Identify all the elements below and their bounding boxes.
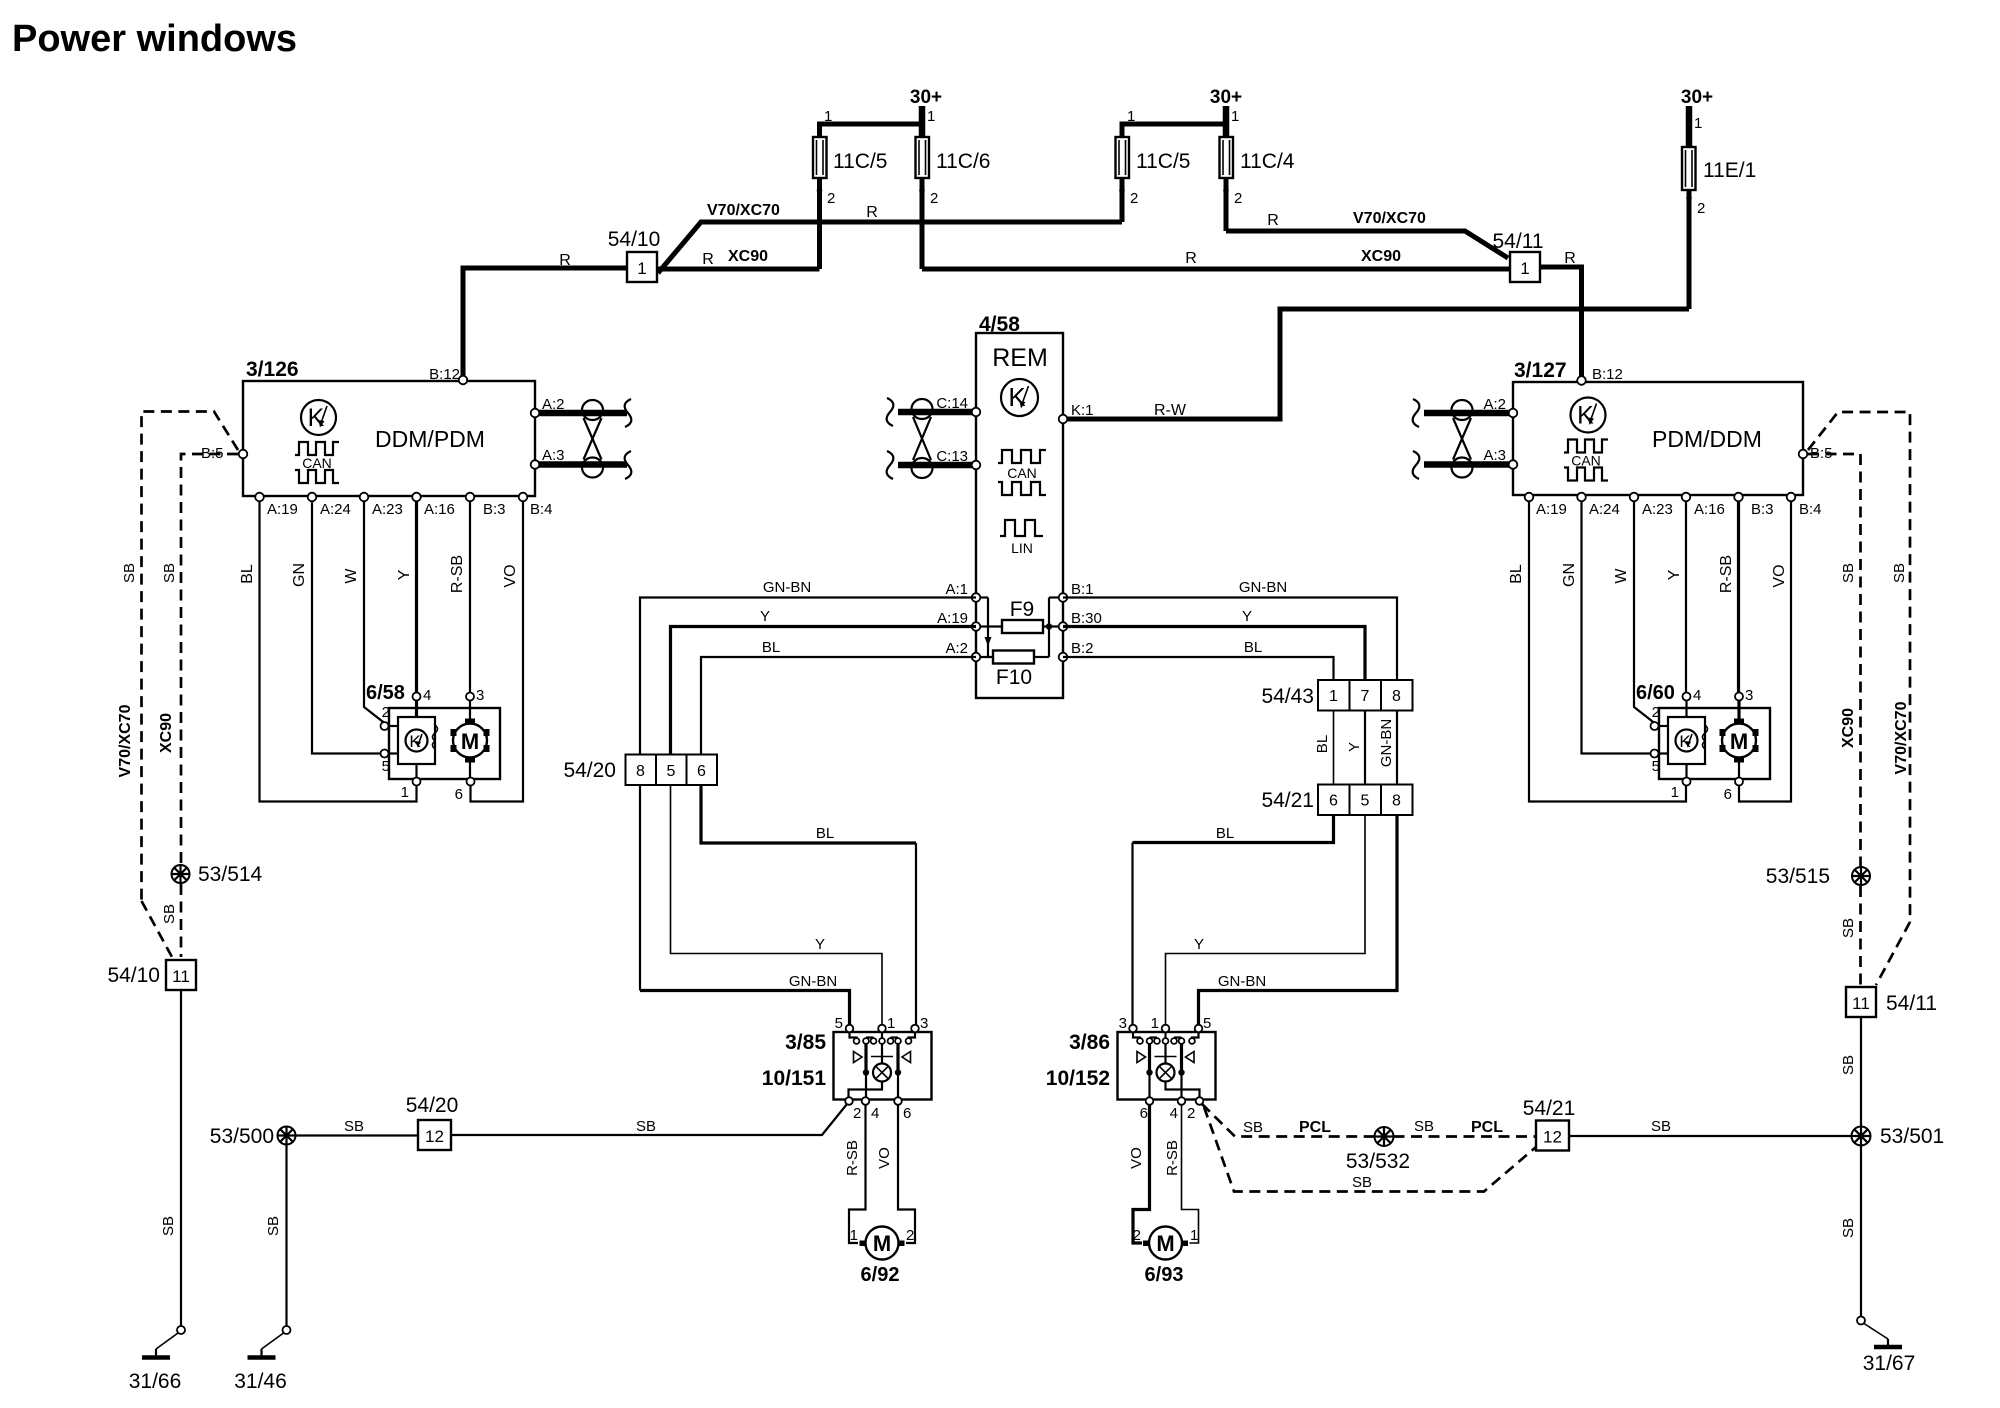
- svg-text:A:19: A:19: [267, 501, 298, 518]
- svg-text:6: 6: [455, 786, 463, 803]
- svg-text:Y: Y: [815, 936, 825, 953]
- fuse F10: [1034, 656, 1049, 658]
- wire dashed below splice 53/514: [180, 884, 183, 957]
- svg-text:3/127: 3/127: [1514, 359, 1567, 382]
- svg-text:1: 1: [887, 1015, 895, 1032]
- svg-text:6/92: 6/92: [861, 1264, 900, 1286]
- svg-text:VO: VO: [876, 1147, 893, 1169]
- svg-text:6/93: 6/93: [1145, 1264, 1184, 1286]
- wire dashed diagonal into 54/10: [142, 901, 173, 957]
- pin 6 of 6/58: [467, 778, 475, 786]
- svg-text:6: 6: [1329, 793, 1338, 810]
- svg-text:1: 1: [401, 784, 409, 801]
- svg-text:3/85: 3/85: [785, 1031, 826, 1054]
- svg-text:SB: SB: [1840, 1055, 1857, 1075]
- wire GN-BN below 54/21 to 3/86 pin5: [1199, 815, 1398, 1026]
- wire GN A:24 to 6/58 pin5: [312, 497, 381, 754]
- svg-text:BL: BL: [239, 564, 256, 584]
- svg-text:5: 5: [382, 758, 390, 775]
- svg-text:1: 1: [1151, 1015, 1159, 1032]
- fuse 11C/6: [916, 137, 930, 178]
- splice 53/501: [1852, 1127, 1871, 1146]
- svg-text:1: 1: [850, 1227, 858, 1244]
- wire R-SB B:3 to 6/58 pin3: [469, 497, 471, 694]
- svg-text:R: R: [1267, 212, 1279, 229]
- svg-text:SB: SB: [636, 1118, 656, 1135]
- svg-text:SB: SB: [1352, 1174, 1372, 1191]
- pin 2 of 11C/5 right: [1119, 188, 1125, 194]
- svg-text:2: 2: [1234, 190, 1242, 207]
- wire SB to ground 31/66: [180, 990, 182, 1326]
- svg-text:W: W: [343, 568, 360, 584]
- svg-text:11E/1: 11E/1: [1703, 159, 1756, 182]
- svg-text:1: 1: [1694, 115, 1702, 132]
- svg-text:5: 5: [667, 763, 676, 780]
- svg-text:B:12: B:12: [1592, 366, 1623, 383]
- svg-text:XC90: XC90: [728, 248, 768, 265]
- wire dashed SB lower loop: [1204, 1107, 1536, 1192]
- svg-text:A:23: A:23: [372, 501, 403, 518]
- wire VO B:4 down to 6/58 pin6: [471, 497, 524, 802]
- twist symbol: [1452, 400, 1473, 478]
- component box 4/58: [976, 333, 1063, 698]
- bottom pins 3/86: [1146, 1097, 1154, 1105]
- svg-text:Power windows: Power windows: [12, 18, 297, 60]
- wire SB from 53/500 down to ground 31/46: [285, 1145, 287, 1327]
- svg-text:53/501: 53/501: [1880, 1125, 1944, 1148]
- svg-text:B:3: B:3: [1751, 501, 1774, 518]
- svg-text:R-SB: R-SB: [1164, 1140, 1181, 1176]
- wire SB V70/XC70 dashed: [1808, 412, 1910, 922]
- wire fuse top link 11C/5 to 30+: [820, 124, 923, 140]
- wire BL A:19 down to 6/60 pin1: [1529, 497, 1686, 802]
- CAN symbol 3/126: [295, 442, 339, 483]
- wire XC90 branch from 54/10 to 11C/5: [658, 267, 820, 272]
- svg-text:GN-BN: GN-BN: [1378, 719, 1395, 767]
- svg-text:54/10: 54/10: [107, 964, 160, 987]
- svg-text:R: R: [1564, 250, 1576, 267]
- svg-text:2: 2: [1130, 190, 1138, 207]
- svg-text:1: 1: [1671, 784, 1679, 801]
- fuse 11E/1: [1682, 147, 1696, 190]
- svg-text:SB: SB: [121, 563, 138, 583]
- svg-text:A:16: A:16: [1694, 501, 1725, 518]
- wire BL below 54/21 to 3/86 pin3: [1133, 815, 1334, 843]
- wire GN-BN A:1: [640, 598, 976, 991]
- wire SB from 54/21 to 53/501: [1569, 1135, 1852, 1137]
- svg-text:R-W: R-W: [1154, 402, 1187, 419]
- svg-text:A:2: A:2: [1483, 396, 1506, 413]
- wire R-W from 11E/1 to REM K:1: [1063, 309, 1689, 419]
- hook A:2: [1413, 399, 1420, 427]
- svg-text:XC90: XC90: [1361, 248, 1401, 265]
- twisted pair A:2/A:3 of 3/126: [535, 410, 627, 417]
- svg-text:Y: Y: [396, 569, 413, 580]
- svg-text:3: 3: [476, 687, 484, 704]
- pin 6 of 6/60: [1735, 778, 1743, 786]
- svg-text:B:12: B:12: [429, 366, 460, 383]
- svg-text:2: 2: [1652, 704, 1660, 721]
- svg-text:CAN: CAN: [1571, 453, 1601, 469]
- svg-text:GN-BN: GN-BN: [1218, 973, 1266, 990]
- svg-text:53/532: 53/532: [1346, 1150, 1410, 1173]
- pin A:3 of 3/126: [531, 460, 540, 469]
- bottom pins 3/85: [845, 1097, 853, 1105]
- svg-text:30+: 30+: [910, 87, 942, 108]
- pin A:2: [972, 653, 981, 662]
- wires pins into 6/60: [1685, 698, 1687, 717]
- svg-text:54/43: 54/43: [1261, 685, 1314, 708]
- svg-text:K: K: [1008, 382, 1026, 412]
- pin 2 of 11C/5 left: [817, 188, 823, 194]
- svg-text:1: 1: [1190, 1227, 1198, 1244]
- wire GN A:24 to 6/60 pin5: [1582, 497, 1652, 754]
- motor 6/93: [1143, 1227, 1188, 1260]
- pin 5 of 6/60: [1651, 750, 1659, 758]
- wire GN-BN drop to 3/85 pin5: [640, 991, 850, 1027]
- svg-text:SB: SB: [265, 1216, 282, 1236]
- K circle 6/60: [1676, 730, 1698, 752]
- hook C:14: [887, 398, 894, 426]
- svg-text:PCL: PCL: [1299, 1119, 1331, 1136]
- svg-text:A:24: A:24: [320, 501, 351, 518]
- wire Y A:16 to 6/58 pin4: [415, 497, 418, 694]
- pin A:1: [972, 593, 981, 602]
- svg-text:R-SB: R-SB: [449, 555, 466, 593]
- svg-text:5: 5: [1652, 758, 1660, 775]
- svg-text:2: 2: [1133, 1227, 1141, 1244]
- svg-text:SB: SB: [344, 1118, 364, 1135]
- svg-text:B:30: B:30: [1071, 610, 1102, 627]
- wire R-SB from pin4 to motor 6/93: [1182, 1104, 1199, 1243]
- wire W A:23 to 6/60 pin2: [1634, 497, 1655, 723]
- wire Y below 54/20: [671, 785, 883, 1026]
- pin 2 of 6/58: [381, 722, 389, 730]
- svg-text:31/67: 31/67: [1863, 1352, 1916, 1375]
- K symbol 3/127: [1571, 398, 1606, 433]
- pin 3 of 6/60: [1735, 693, 1743, 701]
- svg-text:B:4: B:4: [530, 501, 553, 518]
- wire VO B:4 down to 6/60 pin6: [1739, 497, 1791, 802]
- svg-text:12: 12: [1543, 1128, 1562, 1147]
- pin B:12 of 3/126: [459, 376, 468, 385]
- svg-text:53/514: 53/514: [198, 863, 263, 886]
- wire V70/XC70 branch from 54/10: [658, 222, 1122, 273]
- wire VO from pin6 to motor 6/93: [1133, 1104, 1150, 1243]
- svg-text:K:1: K:1: [1071, 402, 1094, 419]
- svg-text:W: W: [1613, 568, 1630, 584]
- bottom pins of 3/126: [255, 493, 264, 502]
- svg-text:F10: F10: [996, 666, 1032, 689]
- wire BL A:19 down and to 6/58 pin1: [260, 497, 417, 802]
- svg-text:V70/XC70: V70/XC70: [1353, 210, 1426, 227]
- inner module box 6/58: [398, 717, 435, 764]
- svg-text:3: 3: [920, 1015, 928, 1032]
- svg-text:V70/XC70: V70/XC70: [707, 202, 780, 219]
- svg-text:CAN: CAN: [302, 455, 332, 471]
- svg-text:54/11: 54/11: [1493, 230, 1544, 253]
- svg-text:53/515: 53/515: [1766, 865, 1830, 888]
- wire VO from pin6 to motor 6/92: [898, 1104, 915, 1243]
- connector 54/10 (pin 11): [166, 960, 196, 990]
- wire SB to ground 31/67: [1860, 1146, 1862, 1317]
- svg-text:BL: BL: [762, 639, 780, 656]
- svg-text:B:1: B:1: [1071, 581, 1094, 598]
- hook A:2: [625, 399, 632, 427]
- svg-text:LIN: LIN: [1011, 540, 1033, 556]
- splice 53/532: [1375, 1127, 1394, 1146]
- svg-text:M: M: [1156, 1231, 1174, 1256]
- pin 3 of 6/58: [466, 693, 474, 701]
- pin A:3 of 3/127: [1509, 460, 1518, 469]
- internal bus B-side: [1048, 598, 1050, 658]
- wire R from B:12 of 3/126 up and right to 54/10: [463, 268, 627, 376]
- wire SB to splice 53/501: [1860, 1017, 1862, 1127]
- svg-text:6/58: 6/58: [366, 682, 405, 704]
- pin B:30: [1059, 622, 1068, 631]
- component box 3/127: [1513, 382, 1803, 495]
- svg-text:5: 5: [1361, 793, 1370, 810]
- svg-text:54/10: 54/10: [608, 228, 661, 251]
- svg-text:6: 6: [1724, 786, 1732, 803]
- pin B:1: [1059, 593, 1068, 602]
- pin A:2 of 3/127: [1509, 409, 1518, 418]
- svg-text:A:3: A:3: [542, 447, 565, 464]
- LIN symbol REM: [1000, 520, 1043, 556]
- svg-text:Y: Y: [1242, 608, 1252, 625]
- svg-text:A:3: A:3: [1483, 447, 1506, 464]
- svg-text:1: 1: [1127, 108, 1135, 125]
- svg-text:12: 12: [425, 1127, 444, 1146]
- ground 31/67: [1857, 1317, 1902, 1348]
- svg-text:2: 2: [906, 1227, 914, 1244]
- svg-text:3/126: 3/126: [246, 358, 299, 381]
- wire dashed below splice 53/515: [1859, 886, 1862, 986]
- svg-text:7: 7: [1361, 688, 1370, 705]
- wire pin2 to SB line: [451, 1104, 847, 1135]
- svg-text:8: 8: [636, 763, 645, 780]
- svg-text:BL: BL: [1314, 735, 1331, 753]
- wire Y B:30: [1063, 627, 1365, 681]
- splice 53/500: [278, 1127, 296, 1145]
- pin B:5 of 3/126: [239, 450, 248, 459]
- hook A:3: [625, 451, 632, 479]
- wire Y middle: [1364, 711, 1366, 785]
- wire Y below 54/21 to 3/86 pin1: [1166, 815, 1366, 1026]
- internal wiring 3/85: [849, 1030, 916, 1098]
- ground 31/46: [248, 1326, 291, 1358]
- svg-text:BL: BL: [1508, 564, 1525, 584]
- svg-text:54/20: 54/20: [563, 759, 616, 782]
- connector 54/11 (pin 11): [1846, 987, 1876, 1017]
- wire BL drop: [1131, 843, 1133, 1027]
- CAN symbol 3/127: [1564, 440, 1608, 481]
- svg-text:R: R: [559, 252, 571, 269]
- wire SB splice to 54/20: [296, 1134, 419, 1136]
- svg-text:4: 4: [1170, 1105, 1178, 1122]
- svg-text:V70/XC70: V70/XC70: [1893, 701, 1910, 774]
- svg-text:SB: SB: [1414, 1118, 1434, 1135]
- svg-text:3: 3: [1745, 687, 1753, 704]
- svg-text:GN-BN: GN-BN: [789, 973, 837, 990]
- wires pins into 6/58: [415, 698, 418, 717]
- pin K:1: [1059, 415, 1068, 424]
- svg-text:2: 2: [1697, 200, 1705, 217]
- svg-text:54/21: 54/21: [1523, 1097, 1576, 1120]
- svg-text:1: 1: [1231, 108, 1239, 125]
- svg-text:11C/5: 11C/5: [833, 150, 887, 173]
- svg-text:5: 5: [1203, 1015, 1211, 1032]
- svg-text:CAN: CAN: [1007, 465, 1037, 481]
- svg-text:B:3: B:3: [483, 501, 506, 518]
- pin 2 of 11E/1: [1686, 195, 1692, 201]
- wire BL B:2: [1063, 657, 1334, 680]
- svg-text:M: M: [873, 1231, 891, 1256]
- fuse F9: [976, 625, 1002, 627]
- CAN symbol REM: [998, 450, 1046, 495]
- svg-text:2: 2: [930, 190, 938, 207]
- pin 1 of 6/58: [413, 778, 421, 786]
- svg-text:1: 1: [1520, 259, 1529, 278]
- wire W A:23 to 6/58 pin2: [364, 497, 385, 723]
- svg-text:BL: BL: [1244, 639, 1262, 656]
- svg-text:Y: Y: [1194, 936, 1204, 953]
- svg-text:PCL: PCL: [1471, 1119, 1503, 1136]
- svg-text:11: 11: [172, 967, 190, 986]
- twist symbol REM: [912, 399, 933, 478]
- wire 30+ stub left: [919, 106, 926, 140]
- pin 2 of 11C/6: [919, 188, 925, 194]
- svg-text:R: R: [866, 204, 878, 221]
- wire dashed SB-PCL to 54/21: [1394, 1135, 1537, 1138]
- pin 2 of 11C/4: [1223, 188, 1229, 194]
- fuse 11C/4: [1220, 137, 1234, 178]
- svg-text:R: R: [702, 251, 714, 268]
- svg-text:2: 2: [827, 190, 835, 207]
- svg-text:6: 6: [903, 1105, 911, 1122]
- svg-text:Y: Y: [760, 608, 770, 625]
- svg-text:54/11: 54/11: [1886, 992, 1937, 1015]
- pin C:13: [972, 461, 981, 470]
- svg-text:10/151: 10/151: [762, 1067, 827, 1090]
- svg-text:3: 3: [1119, 1015, 1127, 1032]
- svg-text:1: 1: [927, 108, 935, 125]
- wire V70/XC70 up to 11C/5 right: [1120, 140, 1125, 222]
- svg-text:SB: SB: [1243, 1119, 1263, 1136]
- wire Y A:19: [671, 627, 977, 755]
- svg-text:11C/5: 11C/5: [1136, 150, 1190, 173]
- pin 4 of 6/58: [413, 693, 421, 701]
- svg-text:5: 5: [835, 1015, 843, 1032]
- ground 31/66: [142, 1326, 185, 1358]
- svg-text:GN: GN: [1561, 563, 1578, 587]
- svg-text:GN-BN: GN-BN: [1239, 579, 1287, 596]
- svg-text:F9: F9: [1010, 598, 1035, 621]
- svg-text:31/46: 31/46: [234, 1370, 287, 1393]
- wire BL middle: [1333, 711, 1335, 785]
- wire SB XC90 dashed: [181, 454, 238, 864]
- pin A:2 of 3/126: [531, 409, 540, 418]
- svg-text:SB: SB: [1891, 563, 1908, 583]
- svg-text:30+: 30+: [1681, 87, 1713, 108]
- motor M 6/58: [451, 719, 490, 763]
- svg-text:A:19: A:19: [937, 610, 968, 627]
- twisted pair A:2/A:3 of 3/127: [1424, 410, 1513, 417]
- svg-text:XC90: XC90: [158, 713, 175, 753]
- svg-text:PDM/DDM: PDM/DDM: [1652, 426, 1762, 452]
- svg-text:11C/6: 11C/6: [936, 150, 990, 173]
- svg-text:3/86: 3/86: [1069, 1031, 1110, 1054]
- wire 11C/4 lower lead: [1224, 124, 1229, 231]
- svg-text:C:13: C:13: [936, 448, 968, 465]
- K symbol REM: [1001, 379, 1038, 416]
- wire 30+ stub 11E/1: [1686, 106, 1693, 150]
- svg-text:M: M: [461, 729, 479, 754]
- fuse 11C/5 left: [813, 137, 827, 178]
- svg-text:A:24: A:24: [1589, 501, 1620, 518]
- svg-text:A:16: A:16: [424, 501, 455, 518]
- svg-text:DDM/PDM: DDM/PDM: [375, 426, 485, 452]
- svg-text:M: M: [1730, 729, 1748, 754]
- svg-text:2: 2: [1187, 1105, 1195, 1122]
- svg-text:SB: SB: [161, 563, 178, 583]
- svg-text:6: 6: [1140, 1105, 1148, 1122]
- svg-text:6/60: 6/60: [1636, 682, 1675, 704]
- svg-text:VO: VO: [502, 564, 519, 587]
- svg-text:XC90: XC90: [1840, 708, 1857, 748]
- wire dashed diagonal into 54/11: [1876, 922, 1910, 985]
- svg-text:2: 2: [853, 1105, 861, 1122]
- svg-text:1: 1: [824, 108, 832, 125]
- twisted pair C:14/C:13 wires: [898, 409, 976, 416]
- svg-text:REM: REM: [992, 344, 1048, 372]
- pin 1 of 6/60: [1683, 778, 1691, 786]
- svg-text:VO: VO: [1128, 1147, 1145, 1169]
- svg-text:SB: SB: [1840, 918, 1857, 938]
- wire Y A:16 to 6/60 pin4: [1685, 497, 1687, 694]
- svg-text:1: 1: [637, 259, 646, 278]
- svg-text:8: 8: [1392, 688, 1401, 705]
- svg-text:SB: SB: [1840, 563, 1857, 583]
- wire GN-BN below 54/43: [1396, 711, 1398, 785]
- svg-text:A:2: A:2: [945, 640, 968, 657]
- splice 53/514: [172, 865, 190, 883]
- svg-text:11: 11: [1852, 994, 1870, 1013]
- svg-text:B:4: B:4: [1799, 501, 1822, 518]
- bottom pins of 3/127: [1525, 493, 1534, 502]
- pin 2 of 6/60: [1651, 722, 1659, 730]
- top pins 3/85: [846, 1025, 854, 1033]
- pin B:2: [1059, 653, 1068, 662]
- hook A:3: [1413, 451, 1420, 479]
- svg-text:4/58: 4/58: [979, 313, 1020, 336]
- wire XC90 from 11C/6 to 54/11: [922, 267, 1510, 272]
- pin B:5 of 3/127: [1799, 450, 1808, 459]
- wire V70/XC70 right run to 54/11: [1226, 231, 1508, 258]
- svg-text:2: 2: [382, 704, 390, 721]
- wire 11E/1 lower lead down: [1687, 150, 1692, 309]
- wire GN-BN B:1: [1063, 598, 1397, 681]
- svg-text:V70/XC70: V70/XC70: [117, 704, 134, 777]
- wire R-SB from pin4 to motor 6/92: [849, 1104, 866, 1243]
- motor 6/92: [860, 1227, 905, 1260]
- wire BL A:2: [701, 657, 976, 754]
- motor M 6/60: [1720, 719, 1759, 763]
- svg-text:53/500: 53/500: [210, 1125, 274, 1148]
- svg-text:4: 4: [1693, 687, 1701, 704]
- svg-text:BL: BL: [816, 825, 834, 842]
- splice 53/515: [1852, 867, 1870, 885]
